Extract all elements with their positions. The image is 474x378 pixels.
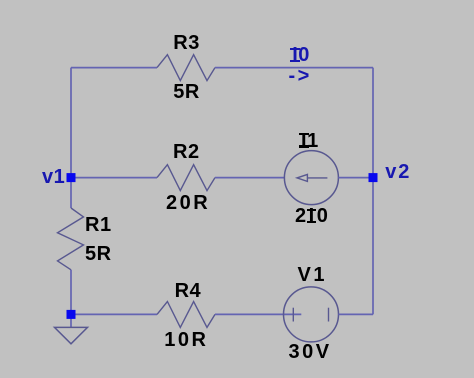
current source I1 arrow [297, 174, 327, 181]
value 2I0 of I1 [295, 206, 330, 226]
resistor R2 [157, 165, 215, 191]
value 5R of R3 [173, 82, 200, 102]
label R3 [173, 33, 200, 53]
wire top horizontal right of R3 [215, 67, 373, 69]
resistor R3 [157, 55, 215, 81]
ground [55, 327, 88, 343]
resistor R1 [58, 208, 84, 270]
voltage source V1 circle [284, 287, 339, 342]
label V1 [298, 265, 327, 285]
wire bottom between V1 and right corner [339, 313, 374, 315]
wire bottom between R4 and V1 [215, 313, 301, 315]
wire middle left of R2 [71, 177, 157, 179]
current source I1 circle [284, 151, 338, 205]
value 5R of R1 [85, 244, 112, 264]
voltage source V1 plus sign [292, 308, 294, 322]
current direction arrow -> [289, 66, 312, 86]
resistor R4 [157, 302, 215, 328]
wire bottom left of R4 [71, 313, 157, 315]
label R4 [175, 281, 202, 301]
value 20R of R2 [166, 193, 210, 213]
label R1 [85, 215, 112, 235]
value 30V of V1 [289, 342, 332, 362]
current label I0 [292, 45, 310, 65]
wire right vertical (top corner to bottom corner) [372, 68, 374, 315]
node label v1 [42, 167, 65, 187]
value 10R of R4 [164, 330, 208, 350]
voltage source V1 minus bar [328, 308, 330, 322]
wire top-left vertical (v1 to top corner) [70, 68, 72, 178]
wire top horizontal left of R3 [71, 67, 157, 69]
wire middle between I1 and v2 [338, 177, 373, 179]
wire left vertical R1 to ground node [70, 270, 72, 328]
label R2 [173, 142, 200, 162]
node v2 junction square [369, 173, 378, 182]
wire middle between R2 and I1 [215, 177, 284, 179]
node label v2 [385, 162, 411, 182]
wire left vertical v1 to R1 [70, 178, 72, 208]
node v1 junction square [67, 173, 76, 182]
label I1 [301, 131, 319, 151]
node ground junction square [67, 310, 76, 319]
